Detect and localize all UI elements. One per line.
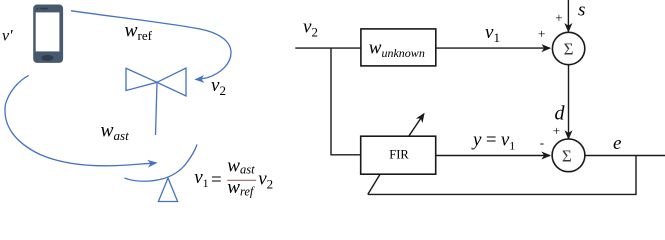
svg-text:s: s	[578, 0, 585, 21]
svg-text:v2: v2	[258, 168, 273, 191]
svg-text:Σ: Σ	[564, 40, 574, 59]
svg-text:v2: v2	[303, 16, 318, 39]
adaptation arrow across FIR	[409, 114, 424, 136]
wire w_ref curve: phone to loudspeaker	[71, 11, 231, 80]
wire w_ast curve: phone to microphone	[5, 75, 156, 165]
microphone dish arc	[124, 145, 197, 182]
wire: feedback from e down and left	[368, 156, 636, 195]
svg-text:wref: wref	[125, 20, 153, 43]
loudspeaker bowtie symbol	[126, 68, 157, 90]
svg-text:e: e	[613, 133, 621, 154]
summing node 2	[552, 139, 585, 172]
wire: output e	[585, 155, 665, 157]
bowtie stem wire	[156, 83, 158, 136]
wire: v2 input line	[295, 47, 361, 49]
svg-text:Σ: Σ	[562, 146, 572, 165]
svg-text:d: d	[555, 103, 566, 125]
svg-text:wast: wast	[101, 120, 130, 143]
svg-text:v1: v1	[485, 22, 500, 45]
svg-text:wunknown: wunknown	[369, 37, 425, 60]
equation v1 = w_ast / w_ref * v2	[194, 156, 273, 199]
wire: sum1 to sum2 (signal d)	[568, 65, 570, 139]
svg-text:FIR: FIR	[389, 148, 409, 162]
block FIR (adaptive filter)	[361, 136, 436, 174]
svg-text:wast: wast	[227, 156, 255, 177]
microphone stand triangle	[158, 178, 177, 202]
svg-text:+: +	[538, 26, 545, 41]
svg-text:+: +	[553, 123, 560, 138]
svg-text:y=v1: y=v1	[471, 130, 515, 153]
wire: v2 branch to FIR	[331, 48, 361, 155]
wire: feedback diagonal into FIR	[368, 175, 380, 195]
svg-text:v′: v′	[2, 28, 13, 45]
wire: FIR output y to summing node 2	[436, 155, 550, 157]
smartphone (source device)	[33, 5, 63, 63]
svg-text:v1: v1	[194, 167, 208, 190]
svg-text:=: =	[211, 169, 222, 190]
svg-text:-: -	[540, 135, 544, 150]
wire: w_unknown to summing node 1	[436, 47, 550, 49]
block W_unknown	[361, 29, 436, 66]
wire: s input from top	[567, 0, 569, 32]
svg-text:v2: v2	[211, 75, 226, 98]
summing node 1	[552, 32, 584, 64]
svg-text:+: +	[555, 10, 562, 25]
